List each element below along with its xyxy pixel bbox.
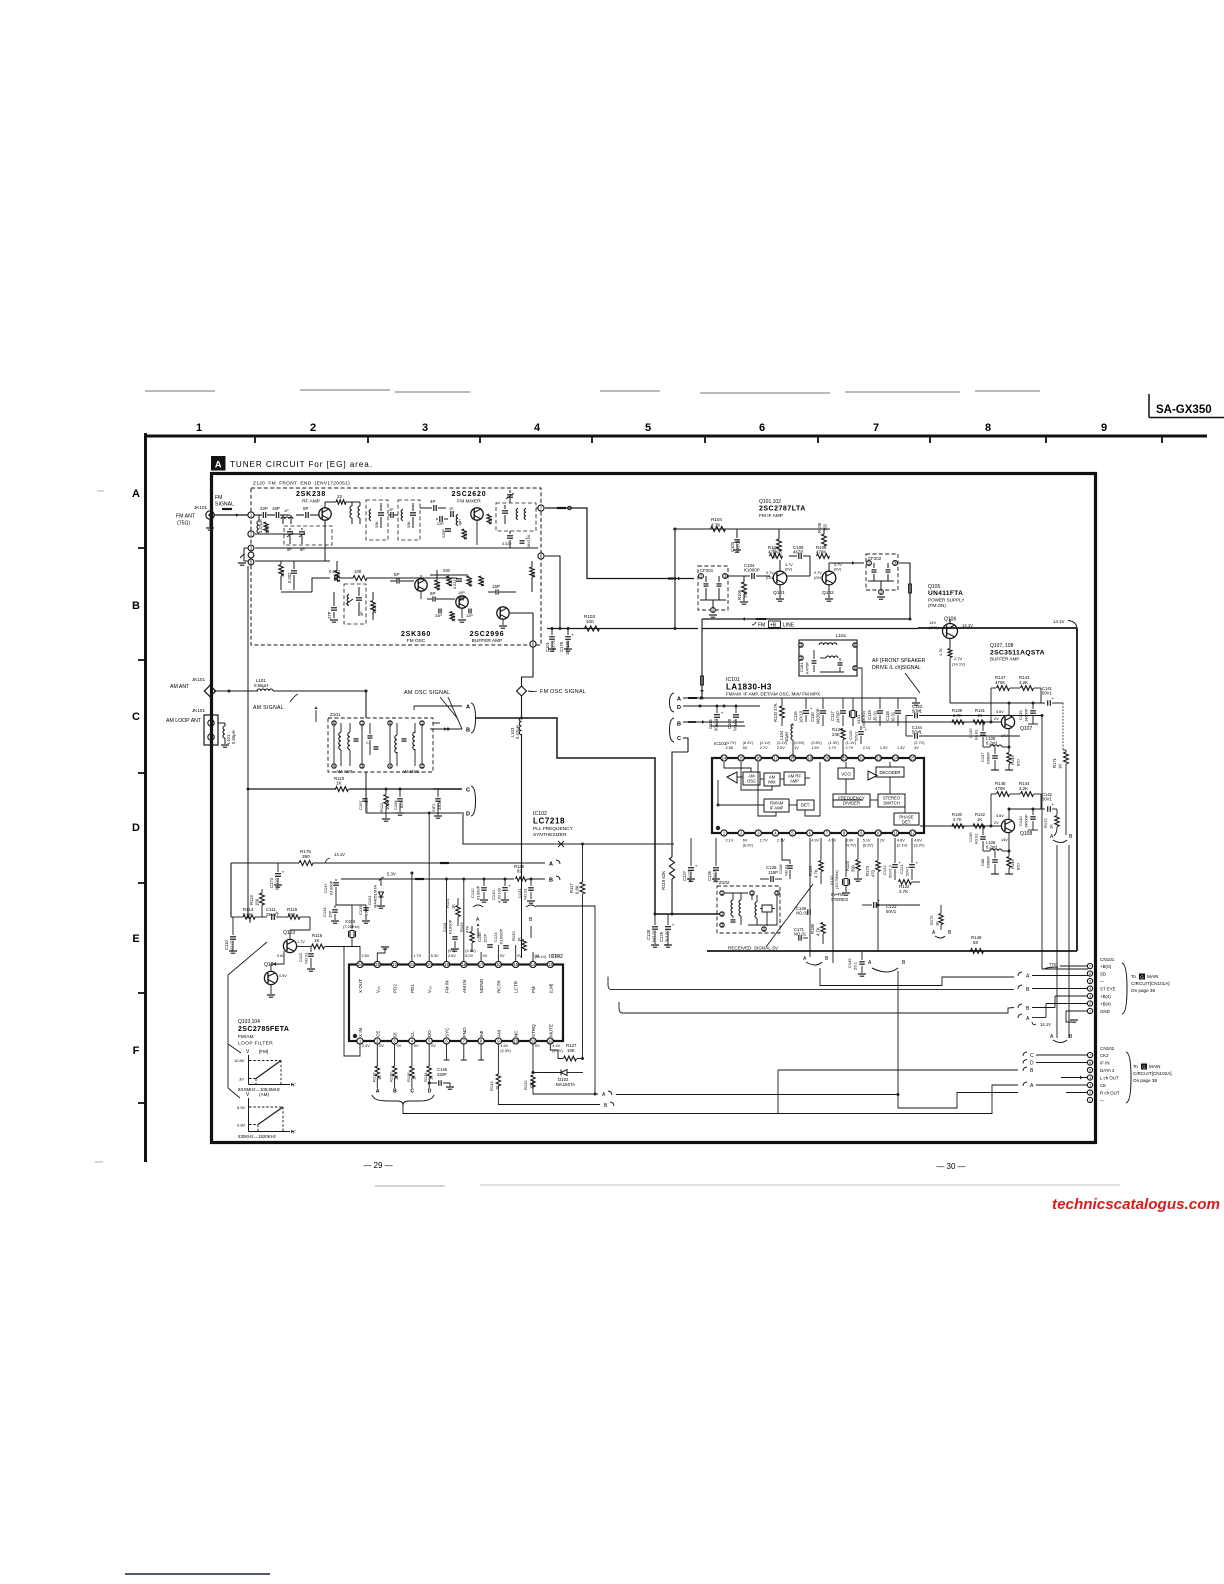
svg-text:A: A [132, 488, 140, 500]
svg-text:R186: R186 [810, 923, 815, 934]
svg-text:2: 2 [1089, 1091, 1091, 1095]
svg-text:20.047: 20.047 [364, 799, 369, 812]
svg-text:UN411FTA: UN411FTA [928, 590, 963, 597]
svg-text:1.7V: 1.7V [413, 954, 421, 958]
mixer emitter cluster 0.022 16V100 [507, 535, 513, 537]
svg-text:R124: R124 [845, 860, 850, 871]
svg-text:220P: 220P [442, 529, 446, 538]
collector rail Q108 [1008, 809, 1010, 820]
svg-text:5.3V: 5.3V [431, 954, 439, 958]
ground at rail end [915, 698, 917, 702]
wire CF202 out down to +B line [899, 563, 910, 619]
wire +B rail y529 [673, 528, 830, 530]
brace terminals at CN101 left A [1018, 972, 1022, 976]
svg-text:CN102: CN102 [1100, 1046, 1115, 1051]
svg-text:C136: C136 [968, 832, 973, 842]
svg-text:C140: C140 [1018, 816, 1023, 826]
vertical drops from A B brace pair to CN102 region [1056, 845, 1058, 1038]
IC101 block DET [797, 800, 814, 810]
svg-text:33P: 33P [435, 614, 442, 618]
svg-text:NO.01: NO.01 [551, 639, 556, 652]
svg-text:C122: C122 [882, 865, 887, 875]
faint separator line [375, 1185, 445, 1187]
brace pair2 stem down [897, 971, 899, 1095]
coil 1uH mixer [456, 515, 458, 526]
svg-text:(ON): (ON) [766, 576, 775, 580]
B line y879 [341, 878, 514, 880]
brace CN102 to main [1126, 1052, 1131, 1103]
svg-text:4: 4 [534, 422, 541, 434]
svg-text:1.7V: 1.7V [828, 746, 836, 750]
svg-text:470K: 470K [469, 578, 473, 587]
svg-text:Q103,104: Q103,104 [238, 1019, 260, 1025]
svg-text:2.7V: 2.7V [954, 656, 963, 661]
svg-text:2.1V: 2.1V [777, 839, 785, 843]
svg-text:OSC: OSC [747, 779, 756, 784]
svg-text:4.7K: 4.7K [711, 523, 721, 528]
svg-text:82: 82 [517, 869, 522, 874]
res 10K mixer [487, 514, 491, 524]
svg-text:(AM): (AM) [259, 1092, 269, 1097]
svg-text:(0.5V): (0.5V) [811, 741, 822, 745]
X103 wiring [336, 905, 352, 929]
svg-text:FM: FM [531, 986, 536, 993]
svg-text:+: + [672, 923, 675, 928]
svg-text:4.7K: 4.7K [816, 927, 821, 936]
svg-text:PLL FREQUENCY: PLL FREQUENCY [533, 826, 574, 832]
svg-text:10: 10 [513, 1039, 518, 1044]
svg-text:R136: R136 [389, 1072, 394, 1082]
svg-text:0V: 0V [379, 1044, 384, 1048]
osc coil dashed box [344, 584, 366, 624]
svg-text:5: 5 [1089, 1069, 1091, 1073]
resistor R108 470K [817, 554, 830, 559]
svg-text:33K: 33K [375, 521, 379, 528]
heavy wire into Z102 [671, 913, 674, 916]
front end pin 7 right [538, 505, 544, 511]
varicap dashed box front [284, 526, 332, 545]
svg-text:0.8V: 0.8V [237, 1123, 246, 1128]
svg-text:C: C [466, 788, 470, 794]
RF interstage coils [350, 506, 352, 518]
svg-text:10P: 10P [458, 591, 465, 595]
svg-text:R125: R125 [808, 865, 813, 876]
svg-text:CF201: CF201 [700, 568, 714, 573]
svg-text:LOOP FILTER: LOOP FILTER [238, 1041, 273, 1047]
svg-text:2.7K: 2.7K [953, 713, 962, 718]
wire B line [683, 721, 744, 723]
svg-text:— 30 —: — 30 — [936, 1162, 965, 1171]
svg-text:2SC2620: 2SC2620 [452, 491, 487, 498]
svg-text:DET.: DET. [801, 803, 810, 808]
svg-text:C130: C130 [491, 890, 496, 900]
wire MONO stub [480, 952, 482, 961]
svg-text:(FM:ON): (FM:ON) [928, 603, 946, 608]
svg-text:SYC: SYC [445, 1027, 450, 1037]
svg-text:MAIN: MAIN [1149, 1064, 1160, 1069]
svg-text:C: C [677, 736, 681, 742]
svg-text:2SC3511AQSTA: 2SC3511AQSTA [990, 650, 1045, 657]
IC101 block STEREO SWITCH [878, 794, 905, 807]
svg-text:D101: D101 [367, 895, 372, 905]
svg-text:1.3V: 1.3V [897, 746, 905, 750]
svg-text:FM OSC: FM OSC [407, 638, 426, 644]
capacitor C126 200P47 [713, 867, 719, 869]
faint scan artifact dashes top [145, 390, 215, 392]
svg-text:4P: 4P [430, 499, 435, 504]
IC102 bottom pins [357, 1038, 363, 1044]
svg-text:SA-GX350: SA-GX350 [1156, 404, 1212, 416]
svg-text:15: 15 [513, 962, 518, 967]
svg-text:R132: R132 [523, 1080, 528, 1090]
svg-text:4.3V100: 4.3V100 [665, 930, 670, 946]
svg-text:19: 19 [444, 962, 449, 967]
cap 10P [460, 596, 462, 601]
svg-text:330P: 330P [437, 1072, 447, 1077]
svg-text:2SK238: 2SK238 [296, 491, 326, 498]
svg-text:C128: C128 [646, 929, 651, 940]
svg-text:5.0V: 5.0V [465, 954, 473, 958]
svg-text:14: 14 [531, 962, 536, 967]
svg-text:K1000P: K1000P [329, 880, 334, 895]
svg-text:V₄₄: V₄₄ [375, 986, 380, 993]
Z102 pins [720, 891, 724, 895]
capacitor C107 20.047 [362, 798, 368, 800]
wire front pin6 to rail [545, 556, 560, 629]
capacitor C106 467P [798, 553, 800, 559]
svg-text:RF AMP: RF AMP [302, 499, 320, 505]
svg-text:+: + [865, 728, 868, 733]
input cap 15P [267, 514, 275, 516]
svg-text:E: E [132, 933, 139, 945]
svg-text:24: 24 [358, 962, 363, 967]
wire left vertical to D [310, 691, 312, 789]
svg-text:+: + [509, 884, 512, 889]
svg-text:C112: C112 [298, 952, 303, 962]
svg-text:2P: 2P [389, 508, 394, 512]
transistor Q103 [283, 939, 296, 952]
svg-text:NO.01: NO.01 [523, 888, 528, 900]
svg-text:R120 47K: R120 47K [773, 703, 778, 722]
svg-text:14.1V: 14.1V [334, 852, 345, 857]
svg-text:1K: 1K [336, 781, 341, 786]
Z101 terminal D [366, 812, 462, 814]
svg-text:330: 330 [443, 568, 451, 573]
svg-text:J15P: J15P [768, 870, 778, 875]
svg-text:7: 7 [1089, 965, 1091, 969]
svg-text:10K: 10K [437, 583, 441, 590]
ground pins 3-5 [244, 547, 248, 549]
wire pin8 down to FM OSC node [522, 647, 534, 687]
svg-text:DECODER: DECODER [880, 770, 901, 775]
tuned circuit dashed box 3 [398, 500, 420, 540]
svg-text:6.8K: 6.8K [575, 885, 580, 894]
svg-text:C109: C109 [727, 718, 732, 729]
svg-text:10K: 10K [567, 1048, 575, 1053]
res 220 osc [447, 576, 451, 586]
svg-text:5: 5 [1089, 980, 1091, 984]
components above IC101: C114 C109 [714, 714, 720, 716]
svg-text:SIGNAL: SIGNAL [215, 502, 234, 508]
svg-text:STEREO: STEREO [831, 897, 849, 902]
cap 0.022 osc [456, 578, 462, 580]
resistor R107 350 [777, 539, 782, 551]
svg-text:2.2K: 2.2K [1019, 786, 1028, 791]
IC101 block AM OSC [743, 772, 760, 785]
svg-text:Z120 FM FRONT END (ENV1720: Z120 FM FRONT END (ENV1720051) [253, 481, 350, 487]
svg-text:C127: C127 [682, 870, 687, 881]
res 1.2K [450, 612, 454, 621]
svg-text:F: F [293, 1083, 296, 1088]
front end pin 8 bottom [530, 641, 536, 647]
svg-text:C147: C147 [323, 883, 328, 893]
capacitor C178 16V100 [565, 636, 571, 638]
svg-text:23: 23 [375, 962, 380, 967]
svg-text:Q103: Q103 [283, 930, 295, 936]
inner section box [218, 627, 702, 629]
svg-text:M6200P: M6200P [816, 708, 821, 724]
svg-text:470K: 470K [995, 786, 1005, 791]
svg-text:50V13: 50V13 [714, 718, 719, 731]
svg-text:C181: C181 [799, 662, 804, 672]
svg-text:C88: C88 [980, 858, 985, 866]
svg-text:467P: 467P [793, 550, 803, 555]
resistor R112 100K [384, 795, 388, 806]
svg-text:(2.1V): (2.1V) [760, 741, 771, 745]
IC101 block FREQUENCY DIVIDER [833, 794, 870, 807]
svg-text:470: 470 [871, 869, 876, 877]
svg-text:R134: R134 [423, 1072, 428, 1082]
svg-text:PD1: PD1 [410, 984, 415, 993]
svg-text:FM: FM [758, 623, 765, 629]
res 100K osc [371, 601, 375, 612]
svg-text:C149: C149 [847, 958, 852, 968]
brace terminals A D B C into IC101 [670, 693, 675, 712]
wire V00 up [428, 813, 430, 961]
ceramic filter CF201 dashed [698, 566, 728, 610]
faint scan dash left margin [97, 490, 104, 492]
IC102 top pins [357, 961, 363, 967]
svg-text:(1.3V): (1.3V) [828, 741, 839, 745]
wire C line [683, 738, 688, 752]
svg-text:+: + [878, 898, 881, 903]
capacitor C127 16V22 [688, 867, 694, 869]
svg-text:C178: C178 [559, 641, 564, 652]
svg-text:4.5K: 4.5K [726, 746, 734, 750]
svg-text:A: A [466, 705, 470, 711]
svg-text:IMI: IMI [479, 1031, 484, 1037]
svg-text:0.56μH: 0.56μH [231, 730, 236, 744]
transistor Q104 [264, 971, 277, 984]
svg-text:0.5V: 0.5V [279, 974, 287, 978]
cap 0.002 [291, 570, 297, 572]
Z101 link caps [368, 735, 373, 737]
svg-text:D: D [466, 812, 470, 818]
wires into CN102 pins [1036, 1054, 1088, 1056]
svg-text:On page 38: On page 38 [1131, 988, 1155, 993]
cap 0.022 bottom [281, 591, 312, 593]
A B brace pair right mid [935, 936, 945, 938]
svg-text:2.7K: 2.7K [953, 817, 962, 822]
coil L103 0.47uH [521, 695, 523, 718]
svg-text:2.7K: 2.7K [899, 889, 908, 894]
svg-text:1μH: 1μH [458, 519, 462, 526]
svg-text:1K: 1K [1058, 764, 1063, 769]
svg-text:8: 8 [985, 422, 991, 434]
svg-text:C135: C135 [968, 728, 973, 738]
svg-text:K100OP: K100OP [499, 929, 504, 944]
svg-text:K0.01: K0.01 [974, 729, 979, 740]
svg-text:50V1: 50V1 [1042, 691, 1052, 696]
svg-text:C129: C129 [659, 931, 664, 942]
svg-text:1K: 1K [517, 937, 522, 942]
capacitor C104 K1000P [751, 573, 753, 579]
svg-text:10K: 10K [489, 517, 493, 524]
svg-text:D: D [1030, 1061, 1034, 1067]
cap 22P mixer [439, 516, 441, 522]
svg-text:R171: R171 [1052, 757, 1057, 768]
svg-text:4.7V: 4.7V [834, 563, 842, 567]
svg-text:1.5V: 1.5V [811, 746, 819, 750]
svg-text:4.6V: 4.6V [996, 710, 1004, 714]
svg-text:+: + [919, 729, 922, 734]
svg-text:C110: C110 [224, 940, 229, 950]
svg-text:POWER SUPPLY: POWER SUPPLY [928, 598, 964, 603]
svg-text:150: 150 [532, 572, 536, 578]
svg-text:20: 20 [825, 756, 830, 761]
svg-text:Q107, 108: Q107, 108 [990, 643, 1014, 649]
vertical +B down x703 [701, 629, 703, 699]
svg-text:C108: C108 [778, 864, 783, 874]
Z101 terminal B [430, 728, 462, 730]
svg-text:IGV22: IGV22 [275, 877, 280, 890]
wire MUTE to R127 [550, 1044, 558, 1050]
svg-text:C125: C125 [848, 730, 853, 740]
svg-text:FM: FM [215, 495, 223, 501]
svg-text:+B(S): +B(S) [1100, 964, 1112, 969]
resistor R106 470K [770, 554, 783, 559]
svg-text:JK101: JK101 [194, 505, 207, 510]
svg-text:C: C [410, 1089, 414, 1095]
svg-text:R ch OUT: R ch OUT [1100, 1091, 1120, 1096]
front end pin 1 [248, 512, 254, 518]
drain resistor 22 [324, 502, 326, 508]
svg-text:16V10: 16V10 [799, 710, 804, 723]
svg-text:NO.01: NO.01 [304, 952, 309, 964]
svg-text:6V: 6V [743, 839, 748, 843]
svg-text:6: 6 [1089, 1061, 1091, 1065]
svg-text:C114: C114 [708, 719, 713, 729]
svg-text:NO.01: NO.01 [794, 932, 807, 937]
svg-text:+B(4): +B(4) [1100, 1002, 1111, 1007]
svg-text:50V1: 50V1 [905, 866, 910, 876]
left ruler ticks [138, 547, 145, 549]
model number box SA-GX350 [1148, 394, 1150, 418]
svg-text:(10.7MHz): (10.7MHz) [834, 870, 839, 889]
wire PD1 up [411, 873, 413, 961]
IC101 internal amp triangle [727, 772, 737, 783]
svg-text:B: B [466, 728, 470, 734]
Z101 terminal C [433, 788, 462, 790]
svg-text:14V: 14V [1001, 734, 1008, 738]
svg-text:+: + [1052, 696, 1055, 701]
A B brace above CN102 [1053, 1040, 1067, 1043]
collector rail Q107 [1008, 703, 1010, 716]
wire AM pin down R133 [497, 1044, 499, 1074]
Z101 AM ANT transformer [332, 721, 336, 725]
brace under ABCD [372, 1095, 434, 1105]
svg-text:BUFFER AMP: BUFFER AMP [472, 638, 503, 644]
svg-text:R113: R113 [249, 895, 254, 905]
svg-text:C173: C173 [269, 877, 274, 888]
svg-text:2SC2787LTA: 2SC2787LTA [759, 506, 806, 513]
svg-text:11: 11 [531, 1039, 536, 1044]
svg-text:DET.: DET. [902, 820, 911, 825]
svg-text:17: 17 [479, 962, 484, 967]
svg-text:(6.2V): (6.2V) [743, 741, 754, 745]
svg-text:DATA 2: DATA 2 [1100, 1068, 1115, 1073]
svg-text:530KHz↔1520KHz: 530KHz↔1520KHz [238, 1134, 276, 1139]
resistor R103 100 [585, 626, 600, 631]
svg-text:J4600P: J4600P [1024, 814, 1029, 828]
junction R103 rail [674, 627, 677, 630]
svg-text:Q104: Q104 [264, 962, 276, 968]
svg-text:(ON): (ON) [814, 576, 823, 580]
svg-text:K680P: K680P [986, 752, 991, 764]
svg-text:Z101: Z101 [330, 712, 341, 717]
IC101 block VCO [838, 768, 854, 779]
bottom left rule [125, 1573, 270, 1575]
mixer out tank dashed box [496, 503, 536, 531]
svg-text:3: 3 [1089, 995, 1091, 999]
svg-text:0.7V: 0.7V [814, 571, 822, 575]
svg-text:4.8V: 4.8V [914, 839, 922, 843]
svg-text:15P: 15P [492, 584, 500, 589]
diode D102 MA165TA [561, 1070, 567, 1076]
svg-text:AMP: AMP [790, 779, 799, 784]
svg-text:C117: C117 [830, 711, 835, 721]
svg-text:J470P: J470P [836, 711, 841, 723]
svg-text:C116: C116 [810, 712, 815, 722]
svg-text:50V1: 50V1 [886, 909, 897, 914]
IC101 block FM/AM IF AMP [764, 799, 789, 812]
svg-text:To: To [1133, 1064, 1138, 1069]
svg-text:22P: 22P [260, 506, 268, 511]
Z101 AM OSC transformer [388, 721, 392, 725]
svg-text:K470P: K470P [805, 662, 810, 674]
svg-text:0V: 0V [414, 1044, 419, 1048]
svg-text:LCTR: LCTR [514, 980, 519, 993]
svg-text:C101: C101 [545, 641, 550, 652]
svg-text:RCTR: RCTR [496, 980, 501, 993]
svg-text:4.3V100: 4.3V100 [497, 887, 502, 903]
IC101 internal wires [737, 776, 743, 778]
svg-text:50V1: 50V1 [1042, 797, 1052, 802]
svg-text:L ch OUT: L ch OUT [1100, 1076, 1119, 1081]
svg-text:10: 10 [876, 831, 881, 836]
svg-text:(0V): (0V) [834, 568, 842, 572]
section marker A black square [211, 456, 226, 471]
front end pin 6 right [538, 553, 544, 559]
svg-text:47P: 47P [327, 611, 332, 619]
svg-text:11: 11 [893, 831, 898, 836]
wire pin7 from mixer tank [536, 507, 538, 509]
svg-text:Q107: Q107 [1020, 726, 1032, 732]
vertical wires pins to bottom [809, 838, 811, 957]
buffer transistor [497, 607, 509, 619]
SYC FNO IMI stubs ground [446, 1044, 448, 1060]
svg-text:(14.1V): (14.1V) [952, 662, 966, 667]
